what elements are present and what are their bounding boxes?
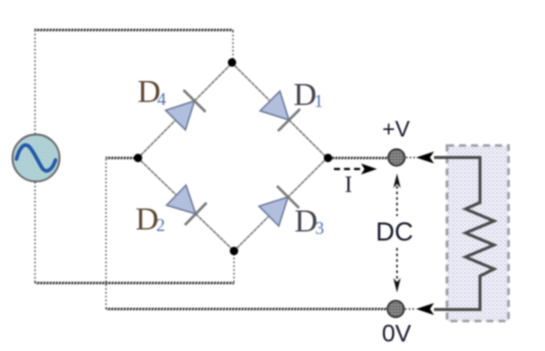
- svg-text:I: I: [345, 172, 353, 197]
- svg-text:DC: DC: [376, 217, 414, 247]
- svg-text:0V: 0V: [382, 321, 411, 348]
- svg-text:+V: +V: [382, 117, 410, 142]
